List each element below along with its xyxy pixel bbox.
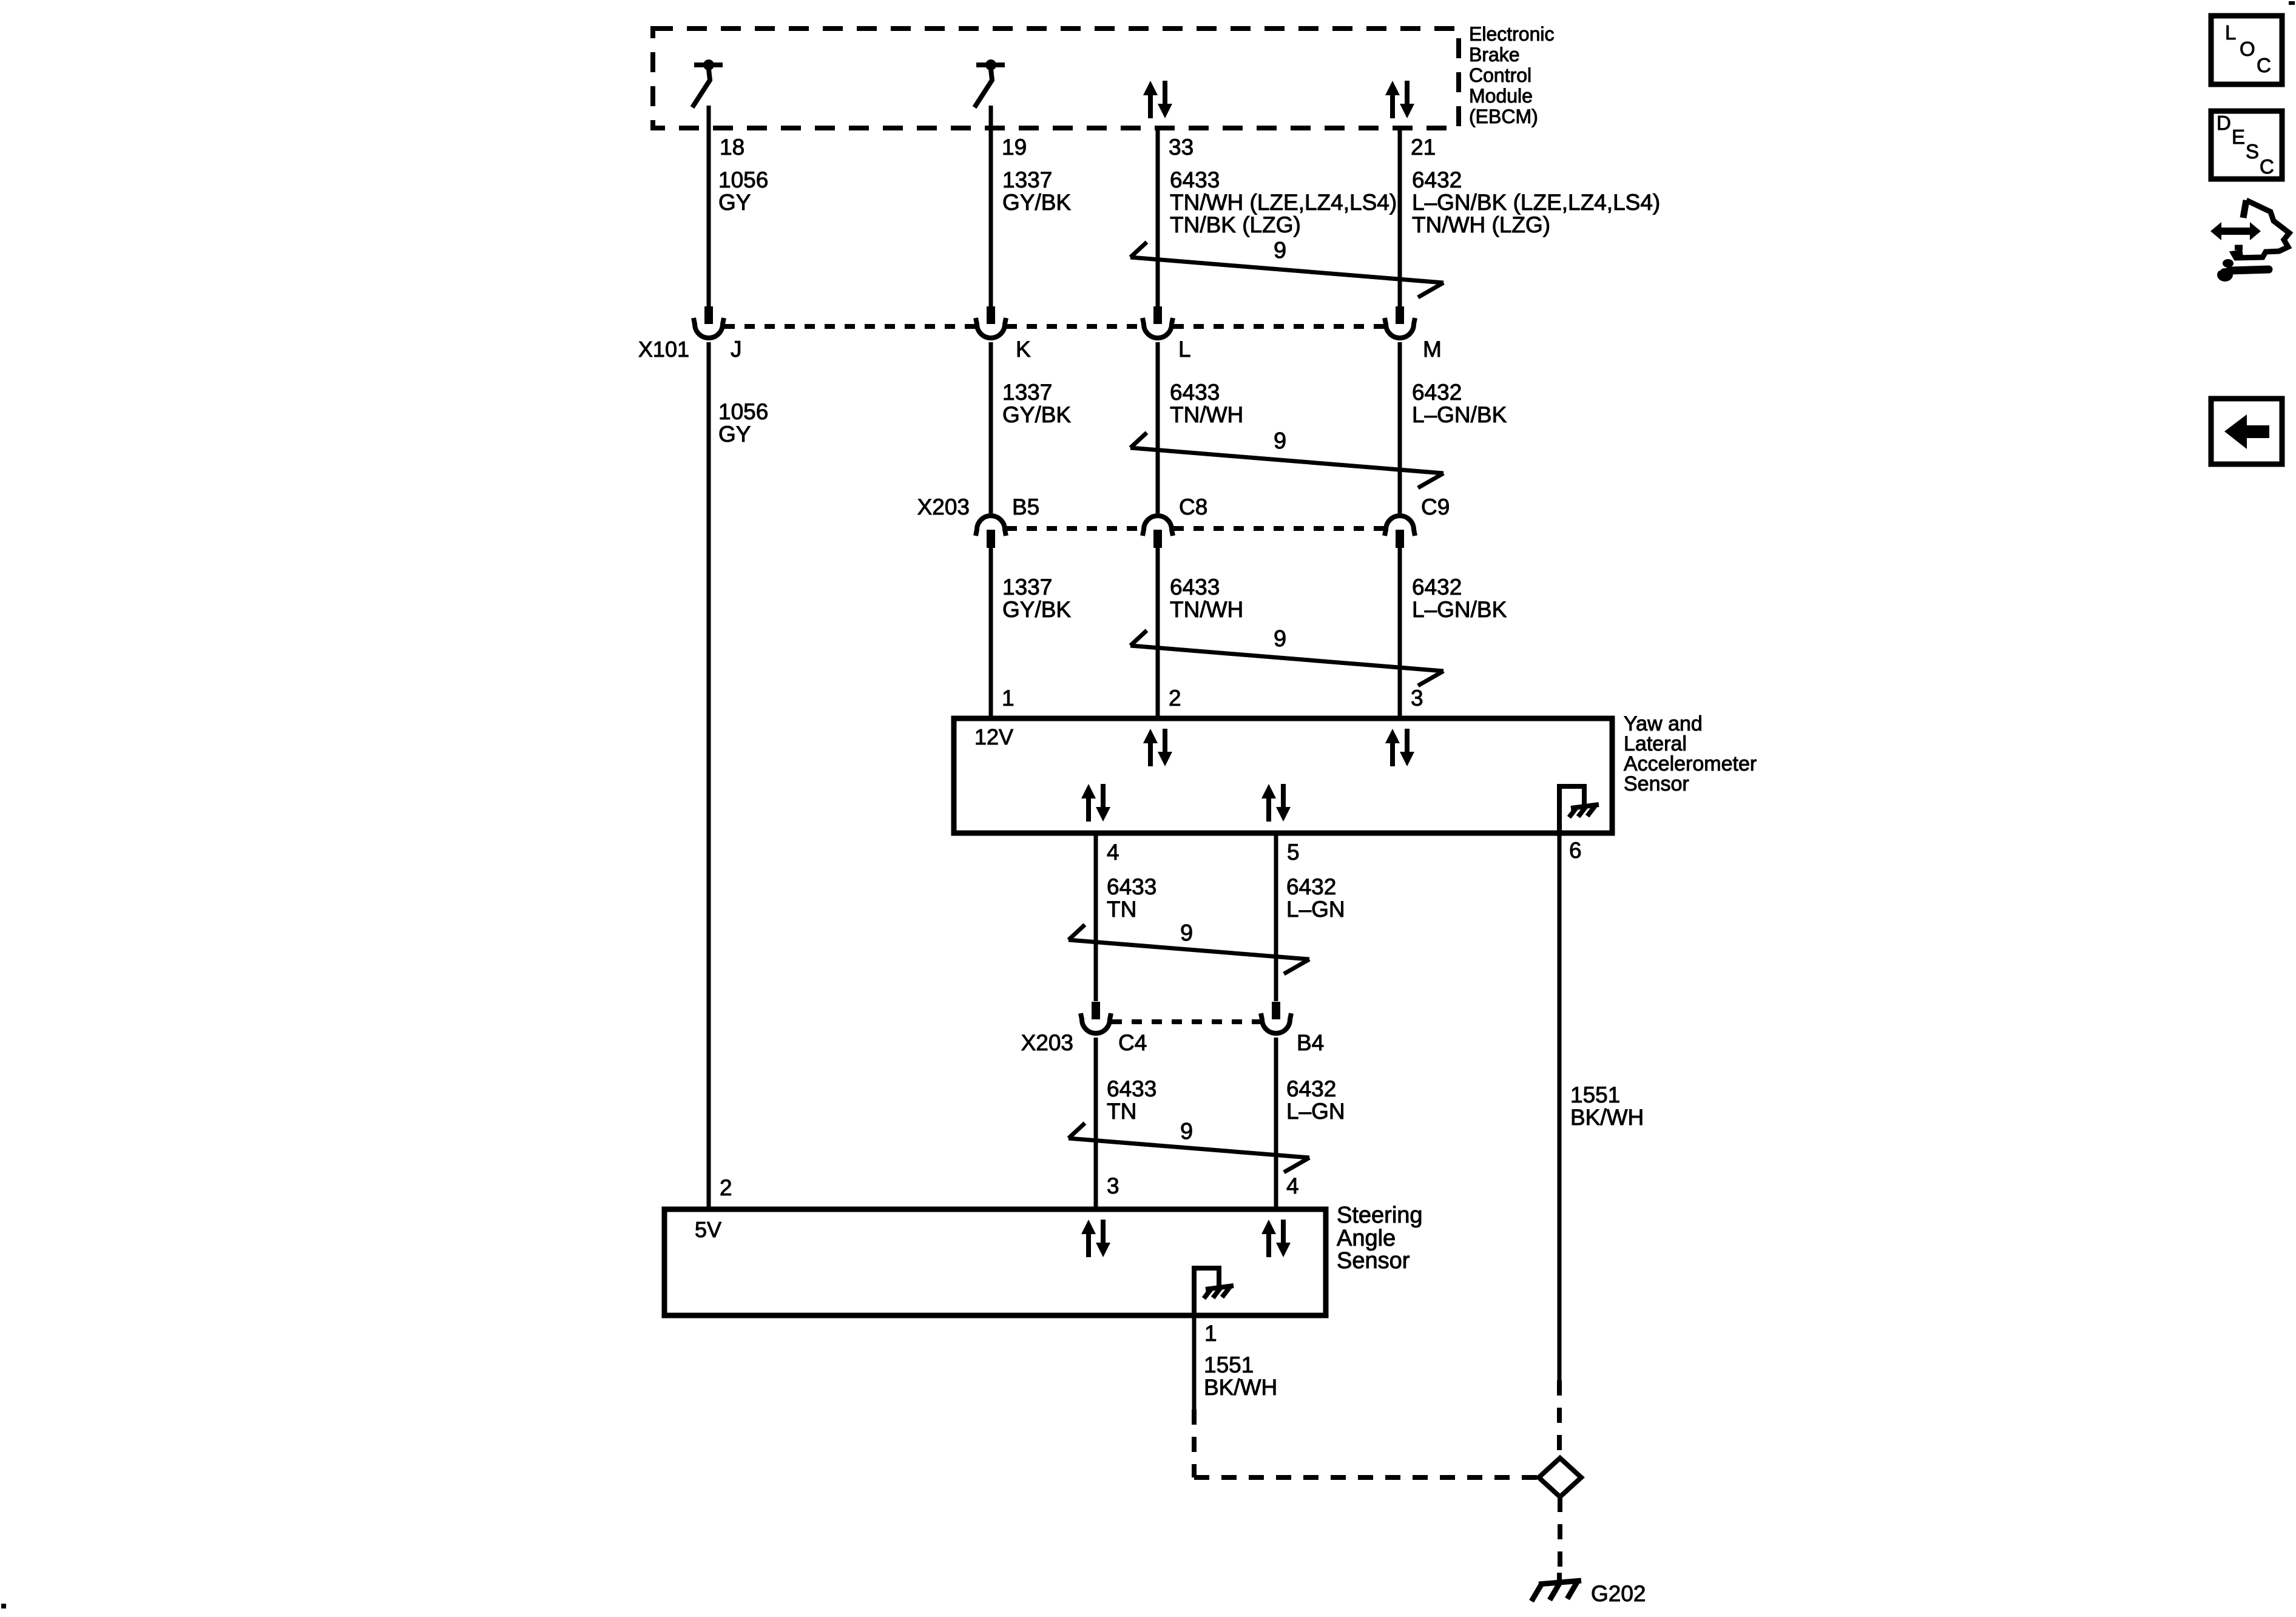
svg-text:1337: 1337 <box>1002 167 1052 192</box>
bidirectional arrows yaw sensor pin2 <box>1143 729 1172 766</box>
svg-text:GY: GY <box>718 422 751 447</box>
svg-text:3: 3 <box>1107 1173 1119 1198</box>
ground path inside yaw sensor to pin 6 <box>1559 786 1584 836</box>
component Steering Angle Sensor box <box>664 1209 1326 1315</box>
svg-text:2: 2 <box>1169 686 1181 711</box>
svg-text:K: K <box>1016 337 1031 362</box>
svg-text:9: 9 <box>1180 920 1193 946</box>
svg-text:1056: 1056 <box>718 399 768 424</box>
svg-text:G202: G202 <box>1591 1581 1646 1606</box>
svg-text:L–GN/BK (LZE,LZ4,LS4): L–GN/BK (LZE,LZ4,LS4) <box>1412 190 1660 215</box>
svg-text:6432: 6432 <box>1286 1076 1336 1101</box>
icon back arrow box <box>2211 399 2282 464</box>
svg-text:L–GN: L–GN <box>1286 897 1345 922</box>
bidirectional arrows steering pin4 <box>1261 1220 1291 1257</box>
wire 1056 GY segment X101-J to steering sensor pin2 <box>707 342 711 1207</box>
ground path inside steering sensor to pin 1 <box>1194 1268 1219 1318</box>
page artifact bottom-left dot <box>1 1604 6 1609</box>
svg-text:1337: 1337 <box>1002 575 1052 599</box>
svg-text:1: 1 <box>1002 686 1015 711</box>
svg-text:GY/BK: GY/BK <box>1002 190 1071 215</box>
twisted pair symbol T5 <box>1069 1123 1309 1172</box>
svg-text:Steering: Steering <box>1337 1203 1423 1228</box>
wire 6433 TN segment yaw pin4 to X203-C4 <box>1094 836 1098 1001</box>
svg-text:19: 19 <box>1002 135 1027 160</box>
component Yaw and Lateral Accelerometer Sensor box <box>954 718 1612 833</box>
wire 1551 BK/WH segment steering pin1 down <box>1192 1315 1197 1409</box>
connector X203 row1 dashed line <box>1007 526 1142 531</box>
svg-text:5V: 5V <box>695 1217 721 1242</box>
svg-text:TN/WH (LZG): TN/WH (LZG) <box>1412 212 1550 237</box>
svg-text:6432: 6432 <box>1286 874 1336 899</box>
wire 1337 GY/BK segment X203-B5 to yaw sensor pin1 <box>989 547 993 716</box>
svg-text:33: 33 <box>1169 135 1194 160</box>
svg-text:TN/WH: TN/WH <box>1170 597 1243 622</box>
svg-text:6433: 6433 <box>1170 575 1220 599</box>
svg-text:B5: B5 <box>1012 495 1039 519</box>
twisted pair symbol T2 <box>1130 433 1443 488</box>
svg-text:S: S <box>2246 140 2259 163</box>
module EBCM dashed box <box>653 29 1459 128</box>
svg-text:BK/WH: BK/WH <box>1204 1375 1277 1400</box>
icon connector service (double arrow, outline, wrench) <box>2210 200 2289 282</box>
svg-text:GY: GY <box>718 190 751 215</box>
svg-text:6433: 6433 <box>1170 380 1220 405</box>
svg-text:12V: 12V <box>974 724 1013 749</box>
wire 1551 BK/WH dashed segment to splice <box>1194 1475 1539 1480</box>
wire 6433 segment EBCM pin33 to X101-L <box>1156 126 1160 306</box>
connector X101 row dashed line <box>724 324 975 329</box>
svg-text:X203: X203 <box>917 495 970 519</box>
chassis ground symbol inside yaw sensor <box>1569 805 1599 817</box>
svg-text:L: L <box>1178 337 1191 362</box>
bidirectional arrows yaw sensor pin3 <box>1385 729 1414 766</box>
svg-text:9: 9 <box>1274 238 1286 263</box>
ground G202 symbol <box>1531 1573 1581 1601</box>
twisted pair symbol T3 <box>1130 630 1443 686</box>
svg-text:X203: X203 <box>1021 1030 1073 1055</box>
svg-text:1056: 1056 <box>718 167 768 192</box>
icon DESC box <box>2211 111 2282 179</box>
wire 1551 BK/WH dashed segment down <box>1192 1409 1197 1477</box>
wire 6432 L-GN/BK segment X101-M to X203-C9 <box>1398 342 1402 513</box>
svg-text:9: 9 <box>1180 1119 1193 1144</box>
connector X203 row2 dashed line <box>1112 1019 1260 1024</box>
svg-text:21: 21 <box>1411 135 1436 160</box>
svg-text:5: 5 <box>1287 840 1300 865</box>
svg-text:Sensor: Sensor <box>1624 772 1689 795</box>
svg-text:6433: 6433 <box>1107 874 1156 899</box>
svg-text:C9: C9 <box>1421 495 1450 519</box>
svg-text:C4: C4 <box>1118 1030 1147 1055</box>
bidirectional arrows yaw sensor pin5 <box>1261 784 1291 822</box>
svg-text:O: O <box>2240 38 2255 60</box>
svg-text:L–GN: L–GN <box>1286 1099 1345 1124</box>
svg-text:6432: 6432 <box>1412 575 1462 599</box>
svg-text:1551: 1551 <box>1204 1352 1254 1377</box>
splice junction diamond <box>1539 1458 1581 1497</box>
connector X203 terminal C9 <box>1385 516 1415 548</box>
svg-text:9: 9 <box>1274 626 1286 652</box>
svg-text:M: M <box>1423 337 1442 362</box>
svg-text:18: 18 <box>720 135 745 160</box>
svg-text:Angle: Angle <box>1337 1226 1396 1251</box>
svg-text:C: C <box>2257 54 2271 76</box>
svg-text:X101: X101 <box>638 337 689 362</box>
connector X101 terminal M <box>1385 306 1415 338</box>
svg-text:6433: 6433 <box>1107 1076 1156 1101</box>
twisted pair symbol T4 <box>1069 925 1309 974</box>
svg-text:2: 2 <box>720 1175 732 1200</box>
page artifact top-right dot <box>2289 1 2295 5</box>
svg-text:4: 4 <box>1107 840 1119 865</box>
svg-text:L–GN/BK: L–GN/BK <box>1412 597 1507 622</box>
svg-text:BK/WH: BK/WH <box>1570 1105 1644 1130</box>
wire 6432 L-GN segment yaw pin5 to X203-B4 <box>1274 836 1278 1001</box>
svg-text:L: L <box>2225 21 2236 44</box>
connector X101 terminal K <box>976 306 1006 338</box>
svg-text:Brake: Brake <box>1469 44 1520 66</box>
wire 6432 L-GN/BK segment X203-C9 to yaw sensor pin3 <box>1398 547 1402 716</box>
bidirectional arrows yaw sensor pin4 <box>1081 784 1110 822</box>
svg-text:Control: Control <box>1469 64 1531 86</box>
bidirectional arrows steering pin3 <box>1081 1220 1110 1257</box>
svg-text:Module: Module <box>1469 85 1533 107</box>
connector X101 terminal J <box>694 306 724 338</box>
svg-text:3: 3 <box>1411 686 1423 711</box>
svg-text:GY/BK: GY/BK <box>1002 597 1071 622</box>
svg-text:TN/WH: TN/WH <box>1170 402 1243 427</box>
connector X101 terminal L <box>1143 306 1173 338</box>
wire 1337 GY/BK segment X101-K to X203-B5 <box>989 342 993 513</box>
svg-text:1: 1 <box>1204 1321 1217 1346</box>
wire 6433 TN segment X203-C4 to steering pin3 <box>1094 1038 1098 1207</box>
switch contact inside EBCM pin 19 <box>974 59 1005 107</box>
svg-text:6432: 6432 <box>1412 167 1462 192</box>
svg-text:6: 6 <box>1569 838 1582 863</box>
svg-text:L–GN/BK: L–GN/BK <box>1412 402 1507 427</box>
connector X203 terminal B4 <box>1261 1002 1291 1033</box>
svg-text:4: 4 <box>1286 1173 1299 1198</box>
svg-text:B4: B4 <box>1297 1030 1324 1055</box>
svg-text:D: D <box>2217 112 2231 134</box>
wire 1337 GY/BK segment EBCM pin19 to X101-K <box>989 106 993 306</box>
svg-text:Sensor: Sensor <box>1337 1248 1410 1274</box>
chassis ground symbol inside steering sensor <box>1204 1286 1234 1298</box>
icon LOC box <box>2211 16 2282 84</box>
bidirectional signal arrows EBCM pin 33 <box>1143 81 1172 118</box>
svg-text:Electronic: Electronic <box>1469 23 1555 45</box>
wire 1551 BK/WH segment yaw pin6 down <box>1558 836 1562 1380</box>
svg-text:9: 9 <box>1274 428 1286 454</box>
wire 6432 segment EBCM pin21 to X101-M <box>1398 126 1402 306</box>
svg-text:E: E <box>2232 126 2245 148</box>
connector X203 terminal C8 <box>1143 516 1173 548</box>
wire 1056 GY segment EBCM pin18 to X101-J <box>707 106 711 306</box>
wire 6433 TN/WH segment X101-L to X203-C8 <box>1156 342 1160 513</box>
svg-text:1551: 1551 <box>1570 1082 1620 1107</box>
wire 6432 L-GN segment X203-B4 to steering pin4 <box>1274 1038 1278 1207</box>
svg-text:TN/BK (LZG): TN/BK (LZG) <box>1170 212 1301 237</box>
svg-text:6432: 6432 <box>1412 380 1462 405</box>
svg-text:GY/BK: GY/BK <box>1002 402 1071 427</box>
connector X203 terminal C4 <box>1081 1002 1111 1033</box>
switch contact inside EBCM pin 18 <box>692 59 723 107</box>
bidirectional signal arrows EBCM pin 21 <box>1385 81 1414 118</box>
svg-text:J: J <box>731 337 742 362</box>
wire segment splice to G202 <box>1558 1497 1562 1576</box>
wire 6433 TN/WH segment X203-C8 to yaw sensor pin2 <box>1156 547 1160 716</box>
svg-text:TN/WH (LZE,LZ4,LS4): TN/WH (LZE,LZ4,LS4) <box>1170 190 1397 215</box>
twisted pair symbol T1 <box>1130 242 1443 297</box>
svg-text:C8: C8 <box>1179 495 1207 519</box>
connector X203 terminal B5 <box>976 516 1006 548</box>
svg-text:1337: 1337 <box>1002 380 1052 405</box>
svg-text:6433: 6433 <box>1170 167 1220 192</box>
svg-text:(EBCM): (EBCM) <box>1469 106 1538 127</box>
wire 1551 BK/WH dashed segment into splice <box>1557 1380 1562 1458</box>
svg-text:TN: TN <box>1107 897 1136 922</box>
svg-text:C: C <box>2260 155 2274 178</box>
svg-text:TN: TN <box>1107 1099 1136 1124</box>
